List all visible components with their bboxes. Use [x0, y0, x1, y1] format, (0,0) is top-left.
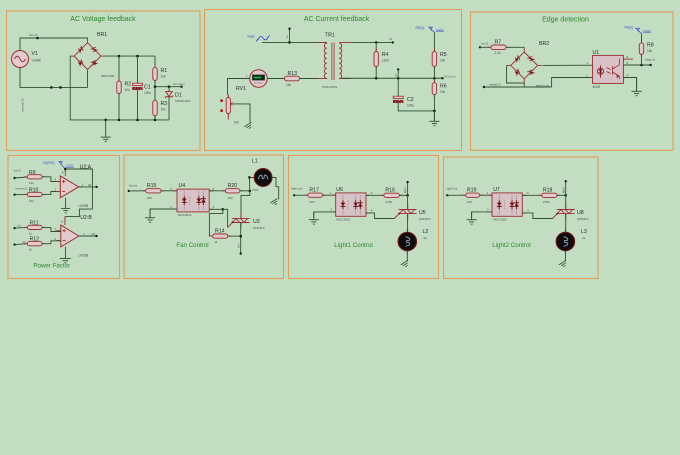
- node fan-out: [128, 190, 130, 192]
- ground tilted lamp L1: [270, 199, 279, 207]
- svg-text:C1: C1: [144, 85, 151, 91]
- triac U3: [240, 212, 242, 218]
- svg-text:2750: 2750: [385, 200, 392, 204]
- svg-text:10k: 10k: [29, 181, 34, 185]
- svg-text:R16: R16: [385, 187, 395, 193]
- wire junction down to U5 MT2: [407, 195, 409, 209]
- resistor R20: [222, 190, 225, 192]
- bottom rail wires: [106, 119, 169, 121]
- power rail U2:A to U2:B: [65, 169, 93, 217]
- svg-text:hot-12: hot-12: [481, 42, 489, 46]
- node hot-12: [36, 37, 39, 40]
- svg-text:hot-12: hot-12: [14, 169, 22, 173]
- stub node above wire: [289, 29, 291, 43]
- svg-text:light1-out: light1-out: [292, 187, 303, 191]
- wire R14 to MT1 junction: [228, 235, 241, 237]
- wire U1 pin2 to neutral: [552, 78, 593, 88]
- node light1-out: [293, 194, 295, 196]
- U2:B output wire pf2: [79, 235, 97, 237]
- U5 MT1 wire to lamp L2: [407, 214, 409, 233]
- wire R17 to U6 pin1: [323, 194, 336, 196]
- junction R8 bottom: [640, 64, 643, 67]
- wire lamp L3 to ground: [564, 251, 566, 262]
- svg-text:R7: R7: [495, 40, 502, 46]
- U3 gate: [232, 221, 234, 223]
- wire TR1 secondary top to d1 node: [351, 41, 393, 43]
- svg-text:C2: C2: [407, 97, 414, 103]
- node edge_in: [649, 64, 651, 66]
- svg-text:R4: R4: [382, 52, 389, 58]
- wire secondary bottom rail to AC-Cur-in: [342, 77, 442, 79]
- wire R20 to junction: [240, 190, 250, 192]
- svg-text:12222: 12222: [436, 28, 444, 32]
- svg-text:Q6010L5: Q6010L5: [419, 217, 431, 221]
- node hot-12 box3: [479, 46, 481, 48]
- wire bridge bottom to neutral: [87, 74, 89, 88]
- svg-text:light2: light2: [562, 187, 565, 193]
- ground box2: [429, 111, 439, 126]
- U1 internal LED: [597, 65, 603, 78]
- svg-text:10k: 10k: [286, 83, 292, 87]
- wire main to TR1 primary top: [262, 41, 326, 43]
- ground tilted: [244, 122, 253, 130]
- neutral-12 wire box3: [484, 86, 552, 88]
- svg-text:R14: R14: [215, 228, 225, 234]
- wire R1-R3 junction to AC-volt-in: [155, 86, 182, 88]
- svg-text:MOC3021: MOC3021: [178, 213, 192, 217]
- resistor R14: [210, 235, 213, 237]
- resistor R8: [641, 40, 643, 43]
- wire R15 to U4 pin1: [161, 190, 177, 192]
- svg-text:100: 100: [228, 196, 233, 200]
- capacitor C2: [397, 78, 399, 97]
- svg-text:fan1: fan1: [237, 243, 240, 248]
- svg-text:10k: 10k: [440, 59, 446, 63]
- ground under U6: [309, 212, 319, 224]
- wire junction to gate: [223, 209, 228, 227]
- U1 pin5 wire to edge_in: [623, 64, 650, 66]
- svg-text:Light1 Control: Light1 Control: [334, 242, 373, 249]
- svg-text:10k: 10k: [647, 49, 653, 53]
- resistor R13: [281, 78, 284, 80]
- svg-text:R18: R18: [543, 187, 553, 193]
- wire junction down to triac MT2: [241, 191, 250, 219]
- node in box4 R12: [13, 243, 15, 245]
- U8 gate: [556, 213, 558, 215]
- U2:A output wire pf1: [79, 186, 97, 188]
- svg-text:100u: 100u: [144, 91, 151, 95]
- resistor R18: [539, 194, 542, 196]
- svg-text:AC Amps: AC Amps: [254, 82, 262, 85]
- svg-text:DIODE-ZEN: DIODE-ZEN: [175, 99, 190, 103]
- section frame Edge detection: [471, 12, 674, 150]
- U1 internal phototransistor: [607, 59, 620, 80]
- wire lamp L2 to ground: [406, 251, 408, 262]
- wire R18 to junction: [557, 194, 566, 196]
- wire R11 to pin5: [42, 227, 61, 231]
- potentiometer RV1: [227, 95, 229, 98]
- U1 pin6 stub: [623, 58, 633, 60]
- junction D1 tap: [168, 85, 171, 88]
- svg-text:U2:A: U2:A: [80, 165, 92, 171]
- svg-text:U5: U5: [419, 210, 426, 216]
- node hot-12 box4: [13, 177, 15, 179]
- lamp L3: [564, 229, 566, 233]
- sine source V1: [12, 51, 29, 68]
- svg-text:RS(1): RS(1): [416, 26, 425, 30]
- U6 pin4 wire to gate: [366, 213, 394, 219]
- U8 MT1 wire to lamp L3: [565, 214, 567, 233]
- node in box4 R11: [13, 227, 15, 229]
- svg-text:R12: R12: [30, 237, 40, 243]
- svg-text:R3: R3: [161, 101, 168, 107]
- svg-text:B80C1000: B80C1000: [101, 74, 115, 78]
- svg-text:1k: 1k: [29, 231, 33, 235]
- wire bridge left down to rail: [70, 56, 106, 120]
- svg-text:V2(RV1): V2(RV1): [43, 161, 55, 165]
- U2:A pin8 stub: [64, 169, 66, 176]
- junction lamp/triac: [249, 190, 252, 193]
- resistor R19: [447, 194, 465, 196]
- U4 pin2 wire to ground: [150, 209, 177, 218]
- U2:B pin8 stub: [64, 217, 66, 226]
- node fan1 terminal: [240, 252, 242, 254]
- svg-text:Q6015L5: Q6015L5: [253, 226, 265, 230]
- wire node to R7: [480, 46, 491, 48]
- resistor R10: [15, 193, 28, 195]
- svg-text:2750: 2750: [543, 200, 550, 204]
- ground under U2:A: [61, 198, 70, 213]
- svg-text:R17: R17: [309, 187, 319, 193]
- svg-text:R5: R5: [440, 52, 447, 58]
- svg-text:R10: R10: [29, 187, 39, 193]
- wire probe to R8: [641, 33, 643, 43]
- ground box3: [631, 78, 641, 96]
- svg-text:-: -: [270, 75, 271, 79]
- svg-text:R1: R1: [161, 68, 168, 74]
- resistor R4: [375, 42, 377, 51]
- svg-text:VSINE: VSINE: [32, 59, 42, 63]
- svg-text:10k: 10k: [125, 88, 131, 92]
- wire V1 bottom neutral: [20, 68, 88, 88]
- wire ammeter left down to RV1: [228, 79, 250, 95]
- svg-text:AC Voltage feedback: AC Voltage feedback: [70, 16, 136, 23]
- svg-text:AC-Cur-in: AC-Cur-in: [444, 75, 456, 79]
- wire R12 to pin6: [42, 241, 61, 244]
- wire bridge output to U1: [543, 64, 593, 66]
- svg-text:LM358: LM358: [79, 204, 89, 208]
- wire R19 to U7 pin1: [480, 194, 493, 196]
- svg-text:U4: U4: [179, 183, 186, 189]
- transformer pin stubs: [326, 42, 328, 43]
- svg-text:10k: 10k: [29, 199, 34, 203]
- svg-text:R2: R2: [125, 82, 132, 88]
- transformer core: [331, 43, 333, 81]
- op-amp U2:A: [56, 181, 61, 183]
- svg-text:V1: V1: [32, 51, 38, 57]
- svg-text:hot-12: hot-12: [29, 33, 38, 37]
- wire bridge bottom to neutral: [523, 83, 525, 87]
- junction R2 tap: [118, 55, 121, 58]
- svg-text:1k: 1k: [214, 240, 218, 244]
- U1 pin4 wire to ground: [623, 78, 636, 91]
- svg-text:neutral-12: neutral-12: [489, 83, 501, 87]
- svg-text:220V: 220V: [252, 188, 258, 192]
- svg-text:R6: R6: [440, 84, 447, 90]
- U5 gate: [398, 213, 400, 215]
- U7 pin6 wire to R18: [522, 194, 542, 196]
- svg-text:fan-out: fan-out: [129, 184, 137, 188]
- stub up to terminal: [407, 182, 409, 195]
- wire ammeter to R13: [267, 78, 284, 80]
- node AC-Cur-in: [441, 77, 443, 79]
- node d1: [392, 41, 394, 43]
- ground: [101, 120, 111, 142]
- section frame Light2 Control: [444, 157, 599, 279]
- svg-text:100u: 100u: [407, 104, 414, 108]
- svg-text:10k: 10k: [161, 108, 167, 112]
- svg-text:U8: U8: [577, 210, 584, 216]
- resistor R17: [294, 194, 308, 196]
- node light2-out: [446, 194, 448, 196]
- svg-text:light1: light1: [404, 187, 407, 193]
- optocoupler U7 MOC3023: [488, 195, 526, 213]
- resistor R2: [118, 56, 120, 81]
- svg-text:2.2k: 2.2k: [495, 51, 501, 55]
- U4 pin6 wire to R20: [209, 190, 225, 192]
- resistor R16: [381, 194, 384, 196]
- svg-text:Edge detection: Edge detection: [542, 17, 589, 24]
- svg-text:22: 22: [582, 236, 586, 240]
- wire bridge left down: [507, 65, 525, 83]
- resistor R6: [433, 78, 435, 82]
- svg-text:pf2: pf2: [92, 232, 96, 236]
- wire R9 to pin3: [42, 177, 60, 182]
- stub up to terminal box7: [565, 181, 567, 195]
- triac MT1 wire: [240, 223, 242, 254]
- svg-text:22: 22: [424, 236, 428, 240]
- resistor R9: [15, 177, 28, 178]
- svg-text:Light2 Control: Light2 Control: [492, 242, 531, 249]
- node pf1: [95, 186, 97, 188]
- svg-text:D1: D1: [175, 93, 182, 99]
- svg-text:220: 220: [467, 200, 472, 204]
- U7 pin4 wire to gate: [522, 213, 552, 219]
- resistor R12: [15, 243, 28, 246]
- svg-text:LM358: LM358: [79, 253, 89, 257]
- svg-text:R11: R11: [30, 220, 39, 226]
- section frame AC Voltage feedback: [7, 11, 201, 151]
- svg-text:RS(1): RS(1): [625, 26, 634, 30]
- optocoupler U6 MOC3023: [332, 195, 370, 213]
- resistor R3: [154, 97, 156, 100]
- svg-text:U2:B: U2:B: [80, 215, 92, 221]
- svg-text:4N25: 4N25: [593, 85, 601, 89]
- svg-text:AC Current feedback: AC Current feedback: [304, 16, 370, 23]
- stub node above C2: [397, 69, 399, 78]
- svg-text:TRAN-2P2S: TRAN-2P2S: [322, 85, 338, 89]
- wire lamp right to ground: [272, 177, 279, 199]
- svg-text:edge_in: edge_in: [645, 58, 655, 62]
- U4 pin4 wire and junction: [209, 208, 223, 210]
- svg-text:L3: L3: [581, 229, 587, 235]
- junction dots on neutral wire: [50, 86, 53, 89]
- section frame AC Current feedback: [205, 10, 462, 151]
- svg-text:R13: R13: [288, 71, 298, 77]
- svg-text:220: 220: [147, 196, 152, 200]
- wire R16 to junction: [399, 194, 407, 196]
- node neutral-12 box3: [483, 86, 485, 88]
- ground tilted lamp L2: [401, 260, 410, 268]
- svg-text:R19: R19: [467, 187, 477, 193]
- node AC-volt-in: [180, 86, 182, 88]
- wire R13 to TR1: [300, 78, 318, 80]
- wire RV1 wiper to ground: [233, 104, 250, 123]
- svg-text:pf1: pf1: [88, 183, 92, 187]
- svg-text:BR2: BR2: [539, 41, 549, 47]
- svg-text:10k: 10k: [161, 75, 167, 79]
- U7 pin2 wire to ground: [472, 212, 492, 218]
- bridge rectifier BR2: [511, 52, 538, 79]
- wire junction up to lamp L1: [249, 177, 254, 191]
- resistor R7: [488, 46, 491, 48]
- wire junction to R14: [209, 209, 222, 236]
- U6 pin2 wire to ground: [314, 212, 336, 218]
- svg-text:12222: 12222: [643, 29, 651, 33]
- svg-text:L2: L2: [423, 229, 429, 235]
- svg-text:1200: 1200: [382, 59, 389, 63]
- svg-text:U6: U6: [336, 187, 343, 193]
- wire junction down to U8 MT2: [565, 195, 567, 209]
- triac U8: [565, 204, 567, 210]
- svg-text:Q6010L5: Q6010L5: [577, 217, 589, 221]
- resistor R1: [154, 56, 156, 67]
- ground under U7: [467, 212, 477, 224]
- wire C2 bottom to ground column: [398, 103, 434, 111]
- capacitor C1: [137, 56, 139, 84]
- ammeter instrument: [250, 70, 268, 88]
- ground under U4: [145, 209, 155, 222]
- svg-text:Fan Control: Fan Control: [176, 242, 208, 249]
- svg-text:U7: U7: [493, 187, 500, 193]
- svg-text:AC-volt-in: AC-volt-in: [173, 82, 185, 86]
- section frame Light1 Control: [289, 156, 439, 279]
- svg-text:220: 220: [309, 200, 314, 204]
- U6 pin6 wire to R16: [366, 194, 384, 196]
- wire V1 top to bridge: [20, 38, 88, 51]
- svg-text:BR1: BR1: [97, 32, 107, 38]
- svg-text:MOC3023: MOC3023: [493, 218, 507, 222]
- svg-text:main: main: [248, 35, 255, 39]
- node neutral-12 box4: [13, 194, 15, 196]
- node pf2: [95, 235, 97, 237]
- ground under U2:B: [60, 247, 71, 263]
- section frame Fan Control: [124, 155, 284, 279]
- svg-text:L1: L1: [252, 159, 258, 165]
- wire bridge output to R1 column: [104, 55, 155, 57]
- resistor R11: [15, 226, 28, 229]
- ground tilted lamp L3: [559, 260, 568, 268]
- junction probe: [64, 168, 67, 171]
- resistor R15: [129, 190, 146, 192]
- triac U5: [407, 204, 409, 210]
- optocoupler U4 MOC3021: [173, 191, 213, 210]
- svg-text:U3: U3: [253, 219, 260, 225]
- svg-text:neutral-12: neutral-12: [21, 98, 25, 112]
- svg-text:100: 100: [234, 121, 240, 125]
- svg-text:light2-out: light2-out: [447, 187, 458, 191]
- svg-text:neutral-12: neutral-12: [16, 187, 28, 191]
- svg-text:R15: R15: [147, 183, 157, 189]
- svg-text:10k: 10k: [440, 90, 446, 94]
- junction above triac U8: [564, 194, 567, 197]
- zener diode D1: [168, 87, 170, 91]
- resistor R5: [433, 48, 435, 51]
- svg-text:+: +: [246, 75, 248, 79]
- svg-text:MOC3023: MOC3023: [336, 218, 350, 222]
- svg-text:U1: U1: [593, 50, 600, 56]
- svg-text:R20: R20: [228, 183, 238, 189]
- svg-text:R8: R8: [647, 43, 654, 49]
- wire R7 to bridge top: [506, 46, 524, 49]
- bridge rectifier BR1: [74, 43, 101, 70]
- wire probe to R5: [433, 32, 435, 51]
- junction C1 tap: [136, 55, 139, 58]
- svg-text:Power Factor: Power Factor: [33, 263, 70, 270]
- lamp L2: [406, 229, 408, 233]
- svg-text:RV1: RV1: [236, 86, 246, 92]
- svg-text:R9: R9: [29, 170, 36, 176]
- lamp L1: [251, 177, 255, 179]
- wire R10 to pin2: [42, 192, 60, 195]
- svg-text:1k: 1k: [29, 248, 33, 252]
- junction R4 tap: [375, 41, 378, 44]
- section frame Power Factor: [8, 156, 120, 279]
- svg-text:TR1: TR1: [325, 33, 335, 39]
- op-amp U2:B: [56, 230, 61, 232]
- junction above triac U5: [406, 194, 409, 197]
- optocoupler U1 4N25: [593, 55, 624, 83]
- svg-text:12222: 12222: [66, 164, 74, 168]
